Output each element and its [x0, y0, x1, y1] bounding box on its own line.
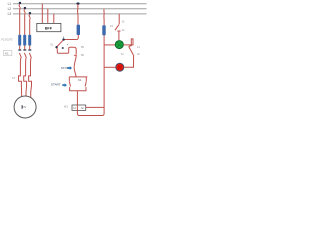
lamp H2 red: [116, 63, 124, 71]
wire phase 3 drop with isolator wiggle: [29, 14, 30, 35]
svg-text:K1: K1: [5, 52, 9, 56]
contact K1 NO blade (green lamp): [115, 25, 119, 31]
wire fuse to elbow: [64, 35, 78, 40]
overload F7 element phase 2 and wire to motor: [24, 58, 27, 96]
wire bus L2: [13, 8, 147, 10]
switch S1 blade: [57, 40, 63, 46]
wire BFF tap phase 1: [41, 4, 43, 24]
lamp H1 green: [115, 41, 123, 49]
wire branch to coil: [76, 91, 78, 105]
parallel branch box bottom: [69, 90, 86, 92]
wire through coil: [76, 105, 78, 110]
wire phase 2 fuse to contactor: [24, 46, 26, 50]
node tap dot phase 2: [24, 7, 26, 9]
contactor K1 pole 3 terminal bar: [28, 49, 31, 50]
wire S1 to stop contact staircase: [57, 47, 76, 54]
switch S1 top terminal dot: [62, 38, 64, 40]
svg-text:96: 96: [81, 53, 84, 57]
svg-text:K1: K1: [64, 104, 68, 108]
node tap dot phase 3: [29, 12, 31, 14]
wire coil right to lamp line: [86, 106, 104, 108]
overload F7 element phase 1 and wire to motor: [19, 58, 22, 97]
wire phase 1 fuse to contactor: [19, 46, 21, 50]
wire NC contact to red lamp: [124, 56, 133, 68]
wire phase 3 fuse to contactor: [29, 46, 31, 50]
parallel branch box top: [69, 76, 87, 78]
svg-text:L2: L2: [8, 7, 12, 11]
node control tap dot on L1: [76, 2, 79, 4]
overload F7 element phase 3 and wire to motor: [29, 58, 32, 98]
wire bus L3: [13, 13, 147, 15]
wire control drop from L1: [76, 4, 79, 24]
stop NC contact tick: [74, 54, 77, 56]
contactor K1 pole 3 blade: [29, 53, 31, 58]
contactor K1 pole 2 terminal bar: [23, 49, 26, 50]
contact K1 NO lower terminal: [117, 31, 120, 40]
stop button arrow: [67, 66, 72, 70]
contactor K1 pole 1 terminal bar: [18, 49, 21, 50]
svg-text:K1: K1: [78, 78, 82, 82]
wire coil bottom to rail and bottom rail up to lamp line: [77, 35, 104, 115]
node corner mark: [67, 43, 68, 45]
svg-text:95: 95: [81, 45, 84, 49]
wire phase 1 drop with isolator wiggle: [19, 4, 20, 35]
start branch lower wire: [69, 87, 71, 91]
wire bus L1: [13, 3, 147, 5]
box BFF: [37, 23, 61, 31]
terminal tick above S1: [62, 37, 64, 39]
start button blade: [69, 82, 70, 87]
node tap dot phase 1: [19, 2, 21, 4]
contactor K1 pole 2 blade: [24, 53, 26, 58]
start branch upper wire: [68, 77, 70, 82]
fuse F3: [28, 35, 31, 46]
wire L3 tap to K1 lamp contact: [118, 14, 120, 24]
node terminal mark 2: [62, 47, 64, 49]
wire BFF tap phase 3: [53, 14, 55, 24]
wire lamp line drop from L2: [103, 9, 105, 25]
motor M1 circle: [14, 96, 36, 118]
wire stop contact to parallel branch: [74, 55, 76, 77]
coil K1 box: [72, 105, 86, 110]
svg-text:F7: F7: [12, 76, 16, 80]
wire red lamp left stub: [104, 66, 115, 68]
K1 aux branch lower wire: [85, 87, 87, 91]
contact K1 NC blade (red lamp): [129, 47, 134, 56]
fuse F4 control circuit: [77, 25, 80, 35]
svg-text:S1: S1: [50, 42, 54, 46]
svg-text:3~: 3~: [21, 105, 27, 110]
label K1 main contactor: [4, 50, 12, 55]
K1 aux contact blade: [85, 82, 86, 87]
wire green lamp left stub: [104, 44, 115, 46]
fuse F1: [18, 35, 21, 46]
svg-text:BFF: BFF: [45, 26, 53, 30]
svg-text:F1,F2,F3: F1,F2,F3: [2, 38, 13, 42]
switch S1 bottom terminal dot: [55, 46, 57, 48]
svg-text:L1: L1: [8, 2, 12, 6]
wire green lamp right stub to NC contact: [123, 39, 133, 47]
fuse F5 lamp circuit: [102, 25, 105, 35]
K1 aux branch upper wire: [85, 77, 87, 82]
contactor K1 pole 1 blade: [19, 53, 21, 58]
fuse F2: [23, 35, 26, 46]
svg-text:START: START: [51, 83, 61, 87]
wire BFF tap phase 2: [47, 9, 49, 24]
start button arrow: [62, 83, 67, 87]
svg-text:L3: L3: [8, 12, 12, 16]
wire phase 2 drop with isolator wiggle: [24, 9, 25, 35]
